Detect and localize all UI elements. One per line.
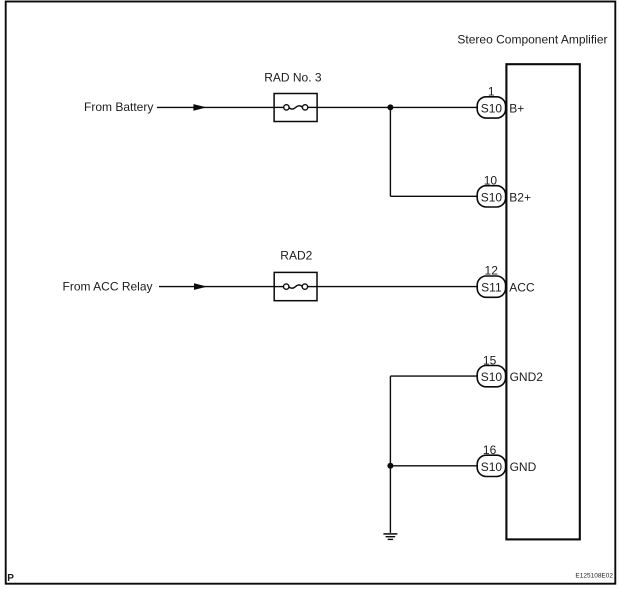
wire from fuse RAD2 to pin 12 ACC bbox=[317, 286, 478, 288]
label RAD2 bbox=[280, 249, 312, 263]
svg-text:S10: S10 bbox=[481, 101, 503, 115]
pin number 10 bbox=[484, 174, 498, 188]
connector S10 pin 10 bbox=[477, 186, 505, 207]
wire from junction to pin 16 GND bbox=[390, 465, 477, 467]
arrow on ACC relay wire bbox=[194, 283, 207, 290]
svg-text:P: P bbox=[7, 573, 14, 584]
page letter P bbox=[7, 573, 14, 584]
wire from battery to fuse RAD No. 3 bbox=[157, 106, 275, 108]
net label GND2 bbox=[510, 370, 544, 384]
svg-text:RAD2: RAD2 bbox=[280, 249, 312, 263]
svg-text:S11: S11 bbox=[481, 281, 502, 295]
fuse RAD No. 3 bbox=[274, 94, 317, 122]
net label B2+ bbox=[509, 190, 531, 204]
wire from fuse RAD No. 3 to pin 1 B+ bbox=[317, 106, 478, 108]
svg-text:Stereo Component Amplifier: Stereo Component Amplifier bbox=[457, 32, 607, 46]
svg-text:E125108E02: E125108E02 bbox=[575, 572, 613, 579]
junction node on B+ wire bbox=[387, 104, 393, 110]
pin number 15 bbox=[483, 353, 497, 367]
svg-text:RAD No. 3: RAD No. 3 bbox=[264, 71, 322, 85]
wire junction down to B2+ row bbox=[389, 107, 391, 196]
svg-text:GND: GND bbox=[510, 460, 537, 474]
wire from pin 15 GND2 to ground drop bbox=[390, 375, 477, 377]
junction node on ground wire bbox=[387, 463, 393, 469]
connector S11 pin 12 bbox=[477, 276, 505, 297]
ground symbol bbox=[383, 534, 397, 540]
label From Battery bbox=[84, 100, 153, 114]
arrow on battery feed wire bbox=[193, 104, 206, 111]
net label B+ bbox=[509, 101, 524, 115]
fuse RAD2 bbox=[274, 272, 317, 300]
svg-text:S10: S10 bbox=[481, 370, 503, 384]
connector S10 pin 15 bbox=[477, 366, 505, 387]
wire from ACC relay to fuse RAD2 bbox=[159, 286, 275, 288]
label RAD No. 3 bbox=[264, 71, 322, 85]
svg-text:ACC: ACC bbox=[509, 281, 535, 295]
amplifier box U1 (Stereo Component Amplifier) bbox=[506, 64, 579, 539]
connector S10 pin 16 bbox=[477, 455, 505, 476]
ground drop wire (vertical) bbox=[389, 376, 391, 533]
svg-text:B2+: B2+ bbox=[509, 190, 531, 204]
label From ACC Relay bbox=[63, 280, 153, 294]
wire to pin 10 B2+ bbox=[390, 195, 477, 197]
drawing number E125108E02 bbox=[575, 572, 613, 579]
pin number 16 bbox=[483, 443, 497, 457]
svg-text:GND2: GND2 bbox=[510, 370, 544, 384]
svg-text:S10: S10 bbox=[481, 190, 503, 204]
svg-text:B+: B+ bbox=[509, 101, 524, 115]
net label ACC bbox=[509, 281, 535, 295]
svg-text:From Battery: From Battery bbox=[84, 100, 153, 114]
net label GND bbox=[510, 460, 537, 474]
svg-text:From ACC Relay: From ACC Relay bbox=[63, 280, 153, 294]
svg-text:S10: S10 bbox=[481, 460, 503, 474]
pin number 1 bbox=[488, 85, 495, 99]
connector S10 pin 1 bbox=[477, 97, 505, 118]
pin number 12 bbox=[485, 264, 499, 278]
label: Stereo Component Amplifier (title) bbox=[457, 32, 607, 46]
